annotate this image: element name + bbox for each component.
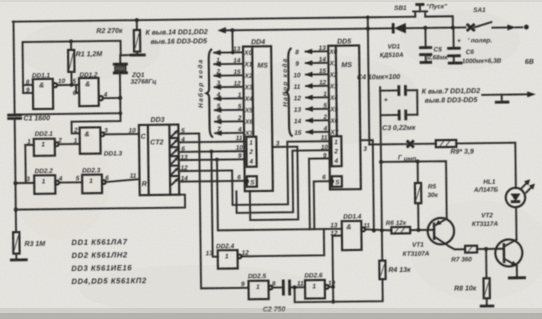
DD4 address pin numbers 11,10,9 (236, 135, 244, 160)
wire DD2.1 input riser (25, 145, 34, 183)
gate DD1.4 (342, 221, 366, 250)
ground under R8 (480, 305, 494, 308)
wire rail A (top supply wire from oscillator frame to SB1) (13, 17, 415, 22)
DD5 strobe bubble and S (330, 179, 341, 186)
wire LED feed from riser corner to lamp (369, 143, 406, 145)
node C3/C4 riser on base line (380, 229, 384, 233)
resistor R4 (379, 261, 385, 280)
transistor VT2 КТ3117А (495, 207, 523, 277)
wire bottom frame to DD3 corner (16, 195, 185, 210)
wire DD3 pin6 to DD4 pin10 (179, 150, 245, 153)
wire riser DD1.4 in12 down to bottom return (331, 236, 334, 302)
node rail B / DD4 X0 riser (230, 28, 234, 32)
node DD2.2 input junction on frame (13, 181, 17, 185)
wire R7 to VT2 base (477, 248, 504, 250)
node tap address bus A to DD2.4 (209, 150, 213, 154)
node DD5 pin3 riser on base line (372, 229, 376, 233)
resistor R5 (415, 161, 422, 230)
DD5 X pin numbers (319, 45, 328, 133)
crystal ZQ1 (113, 55, 129, 98)
gate DD2.2 (34, 175, 59, 194)
node battery + terminal dot (524, 25, 529, 30)
node junction rail B / C5 (423, 26, 427, 30)
capacitor C5 (419, 28, 432, 63)
DD5 address weight labels 1,2,4 (333, 139, 338, 165)
wire from SB1 to rail B junction (425, 16, 453, 28)
wire DD3 pin5 to DD2.5 input (178, 133, 248, 289)
scan bottom shadow band (0, 313, 542, 319)
wire tap down to long bus line to DD1.4 input 13 (217, 158, 342, 230)
brace набор кода DD4 (206, 49, 213, 137)
ground on common return (495, 95, 510, 103)
node R5 top junction (416, 159, 420, 163)
DD3 output cell dividers (170, 138, 179, 176)
gate DD2.4 (218, 250, 242, 269)
wire C3/C4 left riser down through pulse node to base line (380, 87, 382, 260)
capacitor C3 (380, 110, 417, 121)
wire DD1.3 output to DD3 C input (104, 133, 139, 135)
capacitor C1 on left frame (7, 115, 22, 119)
node riser / bottom return (331, 300, 335, 304)
resistor R1 (68, 41, 75, 85)
LED HL1 (506, 179, 536, 207)
DD5 X input rows with arrows (306, 51, 330, 132)
wire DD5 pin6 strobe to bus line (314, 181, 331, 229)
wire DD2.1 out to DD1.3 input 1 (59, 143, 80, 145)
node frame / bottom wire junction (14, 208, 18, 212)
wire DD3 pin13 to DD4 pin9 (179, 158, 245, 161)
node DD2.6 out junction (331, 285, 335, 289)
wire DD2.2 out to DD2.3 in (59, 181, 82, 183)
node R2 top junction on rail A (135, 18, 139, 22)
wire DD2.5 out to C2 (272, 286, 282, 288)
resistor R8 (483, 249, 490, 305)
wire R6 to VT1 base (410, 229, 434, 231)
resistor R3 (13, 232, 20, 259)
wire DD4 pin3 output loop to DD4 bottom (249, 147, 298, 220)
switch SA1 (467, 22, 492, 31)
pushbutton SB1 "Пуск" (413, 4, 427, 16)
wire DD3 pin14 to DD4 pin6 strobe (179, 180, 245, 183)
node tap address bus B (215, 158, 219, 162)
wire DD4 bottom riser route to DD5 pin10 (236, 150, 330, 213)
wire branch down to DD1.3 input 2 (71, 113, 120, 133)
node R8 tap on VT2 base (484, 247, 488, 251)
capacitor C4 polarized (380, 85, 417, 96)
wire bottom return from C2 node to R4 bottom (294, 279, 382, 302)
wire DD3 pin12 route to DD5 pin11 (179, 141, 331, 205)
wire pulse node to VT1 emitter riser (381, 161, 447, 219)
diode VD1 (393, 23, 406, 34)
wire frame to DD2.2 input (15, 182, 34, 184)
resistor R9 (436, 140, 457, 147)
wire DD1.2 output to crystal bottom (103, 97, 120, 99)
counter DD3 (139, 125, 179, 196)
gate DD2.5 (248, 281, 272, 300)
wire rail B from VD1 to SA1 (406, 26, 465, 29)
wire R2 bottom bar to crystal top (121, 54, 146, 57)
wire DD1.4 output to transistor base line (365, 229, 391, 231)
capacitor C6 polarized (447, 27, 462, 63)
wire DD1.1 input stubs from riser (23, 85, 33, 93)
wire left frame vertical (13, 22, 16, 232)
DD4 X input rows with set-code arrows (214, 52, 244, 133)
gate DD1.1 (33, 79, 58, 109)
wire DD1.1 output to DD1.2 inputs (57, 85, 79, 93)
node junction rail B / SB1 / C6 (451, 26, 455, 30)
wire DD2.4 output riser to bus line (241, 229, 324, 256)
multiplexer DD4 (243, 46, 273, 191)
DD4 code digits 1-7 (215, 57, 221, 133)
node crystal bottom junction (118, 96, 122, 100)
wire oscillator top loop (23, 41, 122, 93)
wire with arrow to battery terminal (492, 24, 522, 30)
DD3 output arrows in column (171, 131, 177, 184)
ground under R3 (10, 258, 28, 261)
wire riser rail B to DD4 X0 input (231, 30, 233, 52)
resistor R6 (391, 227, 410, 234)
wire riser from rail A through rail B down to LED feed (368, 17, 370, 144)
wire tap down to DD2.4 input (211, 151, 217, 256)
wire DD2.6 out to riser (329, 286, 333, 288)
gate DD1.2 (79, 78, 103, 106)
node C2 / DD2.6 input junction (293, 285, 297, 289)
capacitor C2 (283, 279, 305, 295)
node rail B / riser (366, 27, 370, 31)
wire DD2.3 out to DD3 R input (106, 179, 140, 182)
wire junction down and left to C1 top (14, 98, 120, 115)
wire cross to R9 (414, 143, 436, 145)
gate DD2.1 (34, 139, 59, 156)
wire rail B (logic supply wire with left arrow to pins 14/16) (217, 25, 393, 34)
wire common return with arrow (482, 91, 536, 98)
DD5 code digits 8-15 (293, 49, 302, 137)
wire R9 to LED corner (456, 143, 516, 189)
node R1 top junction (69, 40, 73, 44)
wire DD5 pin3 output (360, 140, 374, 231)
DD5 X labels (328, 49, 338, 137)
wire joining C4 and C3 right plates (416, 90, 418, 114)
node R1 bottom junction (70, 83, 74, 87)
gate DD1.3 (80, 127, 105, 154)
gate DD2.3 (82, 175, 106, 194)
DD5 address pin numbers 11,10,9 (321, 135, 329, 160)
gate DD2.6 (305, 280, 329, 299)
DD4 address weight labels 1,2,4 (248, 140, 253, 166)
ground under VT2 emitter (508, 276, 526, 279)
resistor R7 (465, 246, 477, 253)
node rail A / riser (366, 15, 370, 19)
node branch to DD1.3 input (119, 111, 123, 115)
brace набор кода DD5 (286, 48, 293, 136)
resistor R2 (134, 20, 141, 55)
node pulse branch junction (379, 160, 383, 164)
node R5 bottom on base line (416, 228, 420, 232)
wire DD1.4 input 12 stub (332, 235, 341, 237)
DD4 strobe bubble and S (245, 179, 256, 186)
DD4 X pin numbers (233, 46, 242, 134)
connection cross Г имп (407, 140, 414, 147)
wire riser from bus line to DD5 pin9 (309, 158, 330, 229)
wire DD3 pin4 to DD4 pin11 (179, 141, 245, 144)
transistor VT1 КТ3107А (428, 218, 466, 250)
node DD4 X0 riser junction (231, 51, 235, 55)
multiplexer DD5 (328, 45, 361, 189)
DD4 X labels (243, 50, 253, 138)
